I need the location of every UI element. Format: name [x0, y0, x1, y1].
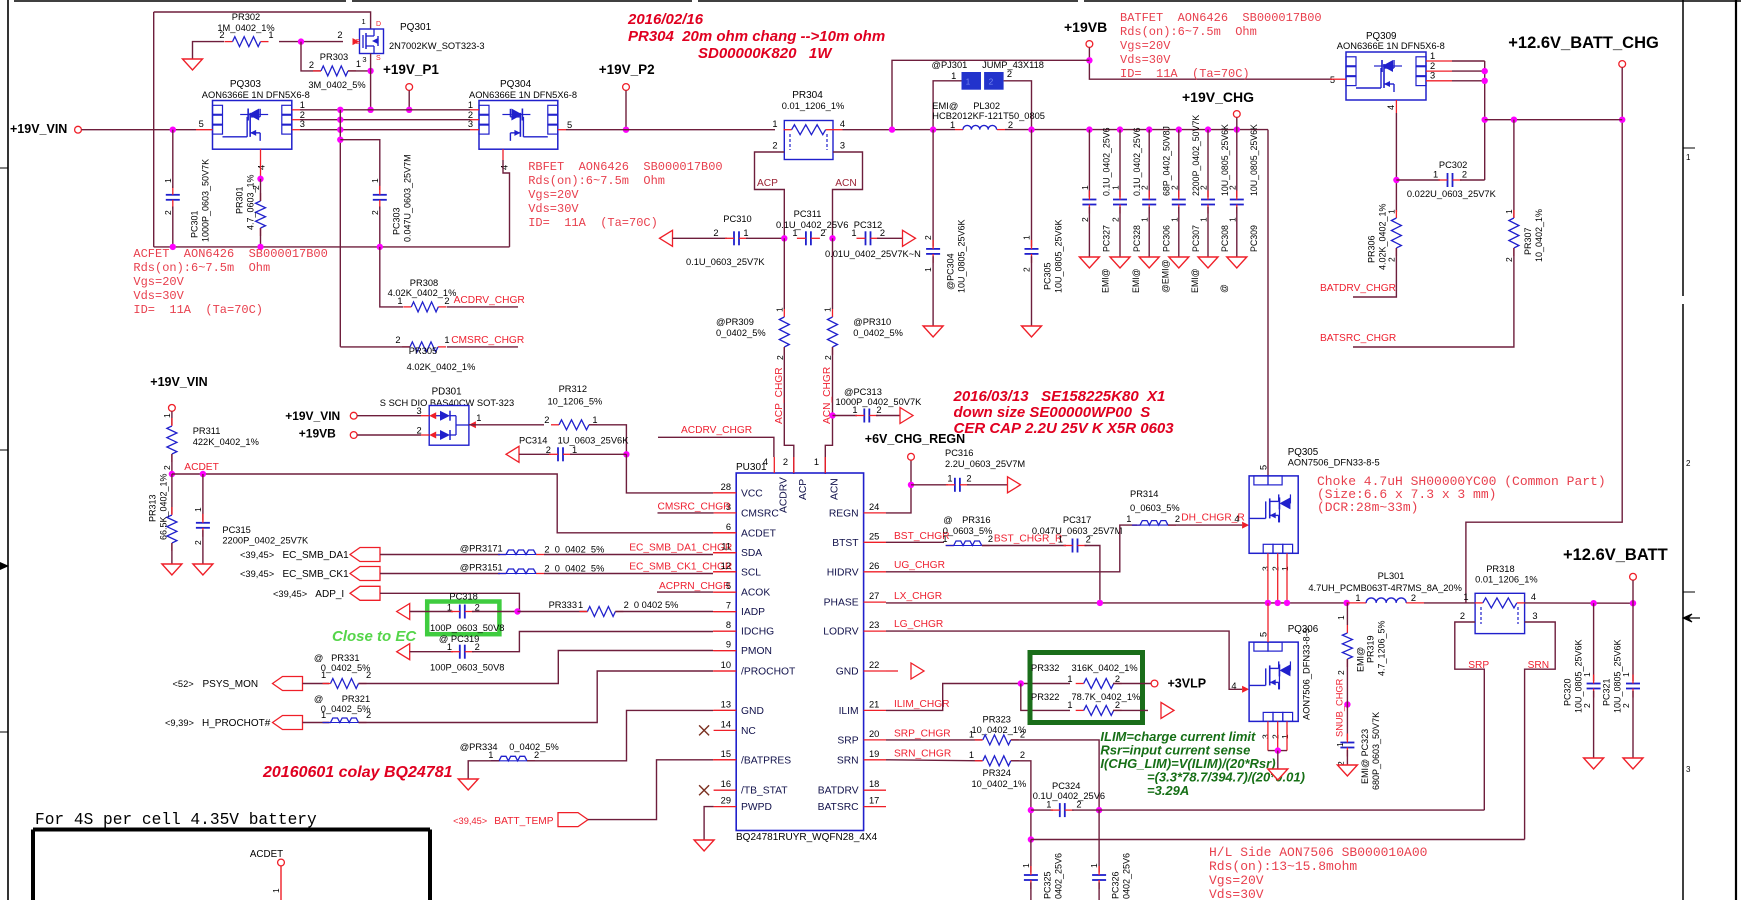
svg-text:CMSRC_CHGR: CMSRC_CHGR	[451, 335, 524, 346]
ground PWPD	[694, 840, 714, 851]
resistor PR308	[403, 306, 411, 308]
svg-text:@PR3151: @PR3151	[460, 563, 503, 573]
svg-text:0_0603_5%: 0_0603_5%	[1130, 503, 1180, 513]
svg-text:2: 2	[876, 405, 881, 415]
wire PR318 kelvin SRN	[1525, 622, 1556, 840]
svg-text:PC320: PC320	[1562, 678, 1572, 706]
svg-text:IADP: IADP	[741, 607, 765, 618]
svg-text:EMI@ PC323: EMI@ PC323	[1360, 729, 1370, 784]
wire ACDRV gate rail bottom	[154, 246, 510, 248]
svg-text:1: 1	[814, 457, 819, 467]
capacitor PC314	[506, 446, 519, 462]
pin 25 BTST	[864, 541, 886, 543]
svg-text:EMI@: EMI@	[1101, 268, 1111, 293]
svg-text:2: 2	[1270, 566, 1280, 571]
svg-text:Vgs=20V: Vgs=20V	[1209, 873, 1264, 888]
svg-text:ACPRN_CHGR: ACPRN_CHGR	[659, 581, 730, 592]
svg-text:4.7UH_PCMB063T-4R7MS_8A_20%: 4.7UH_PCMB063T-4R7MS_8A_20%	[1308, 583, 1461, 593]
wire PR318 kelvin SRP	[1455, 622, 1485, 810]
svg-text:PR324: PR324	[983, 768, 1011, 778]
svg-text:BATSRC_CHGR: BATSRC_CHGR	[1320, 333, 1396, 344]
wire PR332 to +3VLP	[1113, 683, 1151, 685]
svg-text:PC328: PC328	[1132, 225, 1142, 252]
svg-text:2: 2	[1430, 61, 1435, 71]
svg-text:2: 2	[923, 235, 933, 240]
svg-text:<39,45>: <39,45>	[453, 816, 487, 826]
wire PR322 to arrow	[1113, 709, 1148, 711]
svg-text:1: 1	[578, 600, 583, 610]
svg-text:21: 21	[869, 699, 879, 709]
svg-text:PL302: PL302	[973, 101, 1000, 111]
svg-text:PR301: PR301	[234, 186, 244, 214]
svg-text:2.2U_0603_25V7M: 2.2U_0603_25V7M	[945, 459, 1025, 469]
svg-text:5: 5	[1259, 465, 1269, 470]
svg-text:PR333: PR333	[549, 600, 577, 610]
wire LODRV to PQ306 gate	[886, 631, 1242, 689]
battery option box	[33, 830, 430, 901]
svg-text:3: 3	[468, 119, 473, 129]
node PQ301 source junction	[367, 68, 373, 74]
sheet border right arrow	[1683, 614, 1692, 622]
svg-text:1: 1	[1110, 185, 1120, 190]
wire ACDET bottom stub	[280, 866, 282, 900]
svg-text:2: 2	[475, 642, 480, 652]
wire PC301 top	[172, 130, 174, 188]
wire PR307 to BATSRC_CHGR	[1353, 248, 1514, 347]
svg-text:H_PROCHOT#: H_PROCHOT#	[202, 718, 271, 729]
resistor PR309	[783, 238, 785, 309]
wire PR303 pin1 to PQ301 source node	[348, 70, 371, 72]
svg-text:JUMP_43X118: JUMP_43X118	[982, 60, 1044, 70]
wire drain jog to PC303	[340, 140, 380, 190]
wire ACDET to PU301	[172, 474, 713, 533]
svg-text:2: 2	[1462, 170, 1467, 180]
svg-text:PC318: PC318	[449, 592, 477, 602]
svg-text:1: 1	[1169, 217, 1179, 222]
pin 16 /TB_STAT	[714, 789, 737, 791]
svg-text:2: 2	[1020, 750, 1025, 760]
svg-text:1U_0603_25V6K: 1U_0603_25V6K	[558, 436, 630, 446]
svg-text:2: 2	[966, 474, 971, 484]
svg-text:0_0402_5%: 0_0402_5%	[716, 328, 766, 338]
svg-text:@: @	[1219, 284, 1229, 293]
svg-text:/PROCHOT: /PROCHOT	[741, 667, 796, 678]
svg-text:1: 1	[822, 307, 832, 312]
svg-text:4: 4	[257, 165, 267, 170]
svg-text:SD00000K820 1W: SD00000K820 1W	[698, 45, 833, 62]
ground PR313	[162, 564, 182, 575]
svg-text:11: 11	[721, 542, 731, 552]
svg-text:1: 1	[321, 670, 326, 680]
svg-text:27: 27	[869, 591, 879, 601]
svg-text:Rds(on):6~7.5m Ohm: Rds(on):6~7.5m Ohm	[528, 174, 665, 188]
svg-text:PR307: PR307	[1523, 227, 1533, 255]
svg-text:1: 1	[362, 17, 366, 26]
svg-text:3: 3	[362, 55, 366, 64]
node ACDET junction	[169, 471, 175, 477]
svg-text:GND: GND	[741, 706, 764, 717]
svg-text:PR304 20m ohm chang -->10m oh: PR304 20m ohm chang -->10m ohm	[628, 28, 885, 45]
ground PC306	[1139, 257, 1159, 268]
capacitor PC321	[1632, 603, 1634, 681]
svg-text:2: 2	[395, 335, 400, 345]
arrow ACP cap row left	[660, 230, 673, 246]
svg-text:4: 4	[1234, 514, 1239, 524]
svg-text:PQ304: PQ304	[500, 79, 532, 90]
svg-text:LODRV: LODRV	[823, 627, 858, 638]
wire +19V_CHG rail	[833, 129, 843, 131]
mark pin14 NC no-connect	[699, 725, 709, 735]
svg-text:PQ303: PQ303	[230, 79, 262, 90]
svg-text:0.1U_0603_25V7K: 0.1U_0603_25V7K	[686, 257, 765, 267]
svg-text:S: S	[376, 55, 381, 62]
wire BATT_TEMP to BATPRES	[588, 760, 713, 820]
svg-text:1: 1	[1021, 863, 1031, 868]
svg-text:22: 22	[869, 660, 879, 670]
svg-text:ID= 11A (Ta=70C): ID= 11A (Ta=70C)	[528, 216, 658, 230]
svg-text:1: 1	[1280, 734, 1290, 739]
capacitor PC307	[1176, 126, 1182, 132]
svg-text:EC_SMB_DA1: EC_SMB_DA1	[283, 550, 350, 561]
wire PD301 pin1 to PR312	[469, 421, 476, 428]
wire CMSRC to label	[447, 346, 518, 348]
svg-text:CMSRC: CMSRC	[741, 508, 779, 519]
svg-text:S SCH DIO BAS40CW SOT-323: S SCH DIO BAS40CW SOT-323	[380, 398, 514, 408]
svg-text:ACN: ACN	[835, 178, 857, 189]
svg-text:ACDRV_CHGR: ACDRV_CHGR	[454, 295, 525, 306]
svg-text:1: 1	[592, 415, 597, 425]
resistor PR321	[303, 722, 330, 724]
svg-text:4: 4	[500, 165, 510, 170]
svg-text:18: 18	[869, 779, 879, 789]
svg-text:2016/03/13 SE158225K80 X1: 2016/03/13 SE158225K80 X1	[953, 388, 1166, 405]
svg-text:1: 1	[743, 228, 748, 238]
svg-text:PC326: PC326	[1110, 871, 1120, 899]
svg-text:10U_0805_25V6K: 10U_0805_25V6K	[1573, 639, 1583, 713]
svg-text:2: 2	[1175, 514, 1180, 524]
resistor PR306	[1395, 210, 1397, 218]
wire PR318 out	[1525, 602, 1633, 604]
svg-text:2200P_0402_25V7K: 2200P_0402_25V7K	[222, 536, 309, 546]
svg-text:23: 23	[869, 620, 879, 630]
svg-text:4.02K_0402_1%: 4.02K_0402_1%	[1377, 203, 1387, 270]
svg-text:0.1U_0402_25V6: 0.1U_0402_25V6	[776, 220, 848, 230]
svg-text:PC301: PC301	[189, 210, 199, 238]
pin 20 SRP	[864, 739, 886, 741]
wire PC317 to phase	[1085, 546, 1100, 603]
svg-text:+19VB: +19VB	[1064, 19, 1107, 35]
arrow GND pin22	[911, 663, 924, 679]
pin 4 ACDRV	[773, 457, 775, 473]
svg-text:1: 1	[969, 750, 974, 760]
svg-text:8: 8	[726, 620, 731, 630]
svg-text:9: 9	[726, 640, 731, 650]
svg-text:0_0402_5%: 0_0402_5%	[321, 663, 371, 673]
pin 12 SCL	[714, 571, 737, 573]
svg-text:2200P_0402_50V7K: 2200P_0402_50V7K	[1191, 115, 1201, 196]
svg-text:2: 2	[1198, 185, 1208, 190]
svg-text:ACDRV: ACDRV	[778, 477, 789, 513]
svg-text:PR304: PR304	[792, 90, 823, 101]
svg-text:1: 1	[1140, 217, 1150, 222]
pin 1 ACN	[824, 457, 826, 473]
svg-text:EMI@: EMI@	[1190, 268, 1200, 293]
svg-text:PR302: PR302	[232, 12, 260, 22]
svg-text:Vds=30V: Vds=30V	[528, 202, 579, 216]
svg-text:CER CAP 2.2U 25V K X5R 0603: CER CAP 2.2U 25V K X5R 0603	[954, 420, 1175, 437]
svg-text:PC314: PC314	[519, 436, 547, 446]
svg-text:SRP: SRP	[1468, 660, 1489, 671]
pin 29 PWPD	[714, 806, 737, 808]
wire PHASE LX node	[886, 602, 1347, 604]
wire PQ309 pin5 stub	[1330, 78, 1346, 80]
wire PR301	[260, 179, 262, 201]
sheet border right	[1682, 0, 1684, 296]
svg-text:4: 4	[1231, 681, 1236, 691]
svg-text:4.02K_0402_1%: 4.02K_0402_1%	[407, 362, 476, 372]
svg-text:1: 1	[1198, 217, 1208, 222]
wire PQ305 source stubs	[1267, 553, 1269, 603]
svg-text:422K_0402_1%: 422K_0402_1%	[193, 437, 259, 447]
svg-text:2: 2	[1582, 703, 1592, 708]
resistor PR307	[1513, 120, 1515, 218]
wire VCC feed	[626, 454, 713, 493]
svg-text:+19V_P2: +19V_P2	[599, 62, 655, 77]
svg-text:0_0402_5%: 0_0402_5%	[321, 704, 371, 714]
svg-text:GND: GND	[836, 667, 859, 678]
svg-text:BATT_TEMP: BATT_TEMP	[494, 816, 553, 827]
pin 17 BATSRC	[864, 806, 886, 808]
svg-text:1: 1	[444, 335, 449, 345]
svg-text:2: 2	[1460, 611, 1465, 621]
svg-text:BATDRV_CHGR: BATDRV_CHGR	[1320, 283, 1396, 294]
wire ILIM to divider	[886, 684, 1070, 711]
ground PC320	[1584, 758, 1604, 769]
svg-text:1: 1	[951, 71, 956, 81]
svg-text:4.7_1206_5%: 4.7_1206_5%	[1376, 620, 1386, 676]
svg-text:BQ24781RUYR_WQFN28_4X4: BQ24781RUYR_WQFN28_4X4	[736, 832, 878, 843]
svg-text:PQ301: PQ301	[400, 22, 432, 33]
svg-text:+19V_VIN: +19V_VIN	[285, 409, 340, 423]
svg-text:G: G	[355, 39, 360, 46]
svg-text:VCC: VCC	[741, 488, 763, 499]
svg-text:LG_CHGR: LG_CHGR	[894, 619, 943, 630]
svg-text:2: 2	[219, 30, 224, 40]
svg-text:SNUB_CHGR: SNUB_CHGR	[1335, 678, 1345, 737]
resistor PR310	[832, 238, 834, 309]
capacitor PC305	[1031, 130, 1033, 247]
ground PC307	[1169, 257, 1189, 268]
svg-text:2: 2	[1020, 730, 1025, 740]
wire PQ309 drain column	[1484, 61, 1486, 180]
wire SRN to sense	[1011, 761, 1031, 840]
transistor Q PQ301 2N7002KW	[360, 29, 384, 54]
svg-text:2: 2	[1336, 670, 1346, 675]
svg-text:4: 4	[840, 119, 845, 129]
wire PQ304 pin4 to gate rail	[502, 149, 504, 160]
svg-text:BATDRV: BATDRV	[818, 786, 859, 797]
svg-text:3: 3	[840, 141, 845, 151]
svg-text:SRN_CHGR: SRN_CHGR	[894, 749, 951, 760]
svg-text:SDA: SDA	[741, 548, 762, 559]
svg-text:PR316: PR316	[962, 515, 990, 525]
ground PC315	[193, 564, 213, 575]
svg-text:ACDET: ACDET	[250, 849, 283, 860]
pin 18 BATDRV	[864, 789, 886, 791]
svg-text:PR305: PR305	[409, 346, 437, 356]
svg-text:10: 10	[721, 660, 731, 670]
svg-text:1: 1	[1463, 592, 1468, 602]
wire +12.6V_BATT_CHG column	[1466, 68, 1622, 604]
ground PC305	[1022, 326, 1042, 337]
svg-text:2: 2	[989, 78, 994, 87]
svg-text:AON6366E 1N DFN5X6-8: AON6366E 1N DFN5X6-8	[202, 90, 310, 100]
svg-text:3: 3	[1260, 734, 1270, 739]
svg-text:PHASE: PHASE	[824, 598, 859, 609]
wire BTST	[886, 541, 944, 543]
svg-text:6: 6	[726, 522, 731, 532]
svg-text:PQ305: PQ305	[1288, 447, 1319, 458]
wire drain to batt-chg link	[1485, 119, 1623, 121]
svg-text:PR314: PR314	[1130, 489, 1158, 499]
ground PC328	[1110, 257, 1130, 268]
svg-text:4: 4	[1531, 592, 1536, 602]
svg-text:10U_0805_25V6K: 10U_0805_25V6K	[1220, 124, 1230, 196]
svg-text:PC327: PC327	[1102, 225, 1112, 252]
pin 21 ILIM	[864, 709, 886, 711]
wire PR302 pin2 to ground	[193, 42, 225, 59]
svg-text:1: 1	[300, 100, 305, 110]
ground PC323	[1337, 765, 1357, 776]
svg-text:Close to EC: Close to EC	[332, 628, 417, 645]
svg-text:+3VLP: +3VLP	[1168, 677, 1207, 691]
capacitor PC301	[166, 194, 180, 196]
svg-text:100P_0603_50V8: 100P_0603_50V8	[430, 663, 504, 673]
svg-text:PC307: PC307	[1191, 225, 1201, 252]
svg-text:CMSRC_CHGR: CMSRC_CHGR	[658, 502, 731, 513]
svg-text:15: 15	[721, 749, 731, 759]
svg-text:0.022U_0603_25V7K: 0.022U_0603_25V7K	[1407, 189, 1497, 199]
svg-text:2: 2	[1411, 593, 1416, 603]
svg-text:1: 1	[852, 405, 857, 415]
svg-text:2: 2	[1227, 185, 1237, 190]
svg-text:PC315: PC315	[222, 525, 250, 535]
capacitor PC306	[1146, 126, 1152, 132]
svg-text:PR313: PR313	[147, 494, 157, 522]
svg-text:ACP_CHGR: ACP_CHGR	[774, 367, 785, 424]
wire PR306 to BATDRV_CHGR	[1353, 248, 1396, 297]
wire PC310 to ACP node	[746, 237, 784, 239]
svg-text:1: 1	[1504, 209, 1514, 214]
svg-text:1: 1	[447, 642, 452, 652]
resistor PR305	[402, 346, 410, 348]
svg-text:ID= 11A (Ta=70C): ID= 11A (Ta=70C)	[1120, 67, 1250, 81]
svg-text:1: 1	[923, 267, 933, 272]
svg-text:REGN: REGN	[829, 508, 859, 519]
resistor PR313	[171, 474, 173, 514]
svg-text:2: 2	[1686, 459, 1691, 468]
svg-text:PC316: PC316	[945, 448, 973, 458]
wire PC301 bottom	[172, 207, 174, 247]
pin 3 CMSRC	[714, 512, 737, 514]
svg-text:0.047U_0603_25V7M: 0.047U_0603_25V7M	[1032, 526, 1122, 536]
wire PQ306 drain stub	[1267, 603, 1269, 642]
wire PQ306 source stubs	[1267, 721, 1269, 750]
resistor PR301	[260, 193, 262, 201]
pin 2 ACP	[793, 457, 795, 473]
pin 14 NC	[714, 729, 737, 731]
wire gate-drive left drop	[153, 12, 155, 247]
svg-text:ILIM_CHGR: ILIM_CHGR	[894, 699, 949, 710]
wire PSYS_MON to PMON	[359, 651, 714, 684]
svg-text:@PR310: @PR310	[853, 317, 891, 327]
pin 6 ACDET	[714, 532, 737, 534]
svg-text:ACP: ACP	[757, 178, 778, 189]
svg-text:1: 1	[572, 445, 577, 455]
svg-text:ACFET AON6426 SB000017B00: ACFET AON6426 SB000017B00	[133, 247, 327, 261]
svg-text:1: 1	[1355, 593, 1360, 603]
svg-text:2: 2	[370, 210, 380, 215]
pin 15 /BATPRES	[714, 759, 737, 761]
ground PC308	[1198, 257, 1218, 268]
svg-text:10_0402_1%: 10_0402_1%	[1534, 209, 1544, 262]
svg-text:EMI@: EMI@	[932, 101, 958, 111]
svg-text:ACP: ACP	[798, 479, 809, 500]
svg-text:IDCHG: IDCHG	[741, 627, 774, 638]
svg-text:1: 1	[1021, 235, 1031, 240]
svg-text:PR321: PR321	[342, 694, 370, 704]
wire PR334 to ground	[468, 761, 499, 779]
svg-text:2: 2	[1140, 185, 1150, 190]
pin 27 PHASE	[864, 601, 886, 603]
svg-text:2: 2	[880, 228, 885, 238]
svg-text:3: 3	[300, 119, 305, 129]
svg-text:0.01_1206_1%: 0.01_1206_1%	[782, 101, 845, 111]
svg-text:1: 1	[792, 228, 797, 238]
svg-text:1000P_0603_50V7K: 1000P_0603_50V7K	[200, 159, 210, 242]
svg-text:<39,45>: <39,45>	[240, 550, 274, 560]
svg-text:0_0603_5%: 0_0603_5%	[943, 526, 993, 536]
ground PC321	[1623, 758, 1643, 769]
capacitor PC327	[1086, 126, 1092, 132]
svg-text:680P_0603_50V7K: 680P_0603_50V7K	[1371, 712, 1381, 790]
svg-text:1: 1	[1080, 185, 1090, 190]
pin 7 IADP	[714, 611, 737, 613]
svg-text:2: 2	[417, 426, 422, 436]
wire PR304 pin2 ACP loop	[755, 152, 785, 238]
svg-text:ILIM: ILIM	[839, 706, 859, 717]
capacitor PC312	[865, 231, 867, 245]
wire PQ301 source down to bus	[370, 54, 372, 110]
svg-text:SRP: SRP	[837, 735, 858, 746]
svg-text:PMON: PMON	[741, 646, 772, 657]
svg-text:29: 29	[721, 796, 731, 806]
svg-text:Vds=30V: Vds=30V	[133, 289, 184, 303]
svg-text:1: 1	[1046, 800, 1051, 810]
svg-text:3: 3	[1532, 611, 1537, 621]
node PR302-PR303 junction	[298, 38, 304, 44]
svg-text:5: 5	[1259, 632, 1269, 637]
svg-text:BATFET AON6426 SB000017B00: BATFET AON6426 SB000017B00	[1120, 11, 1322, 25]
svg-text:2: 2	[1076, 800, 1081, 810]
svg-text:PD301: PD301	[432, 387, 462, 398]
svg-text:Vgs=20V: Vgs=20V	[1120, 39, 1171, 53]
wire drain bus line2	[292, 119, 300, 121]
svg-text:2: 2	[1007, 69, 1012, 79]
svg-text:0_0402_5%: 0_0402_5%	[853, 328, 903, 338]
resistor PR318 sense	[1475, 593, 1525, 633]
svg-text:2: 2	[337, 30, 342, 40]
